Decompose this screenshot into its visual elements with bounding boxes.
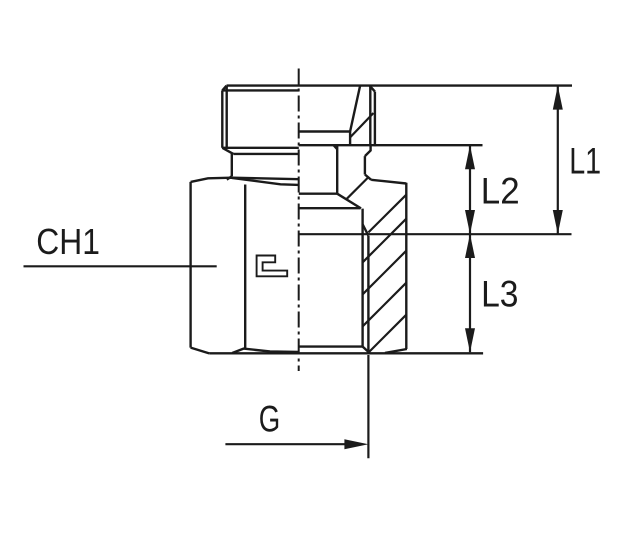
dimension line L3 [469,234,471,352]
internal cone top [350,86,360,132]
hatch hex band 4 [363,283,407,327]
neck right flare [365,175,371,180]
male thread chamfer base line [222,89,298,91]
internal bore shelf 1 [299,130,350,132]
center axis line [298,69,300,372]
logo mark squared G [257,256,288,277]
internal cone flare to female thread [337,194,361,209]
internal bore wall 2 [336,145,338,194]
male thread root right [369,86,371,146]
neck right step [365,145,371,156]
female thread root line [361,209,363,347]
male thread top chamfer left [222,86,226,91]
arrowhead L2 bottom [465,210,475,234]
hex top silhouette left [191,178,299,182]
svg-text:L1: L1 [569,140,601,181]
hex bottom chamfer left [191,348,210,354]
male thread top face [227,84,573,86]
hatch hex band 2 [363,219,407,263]
internal bore wall 1 [349,132,351,146]
male thread top chamfer right [370,86,375,92]
male thread root left [225,86,227,148]
hatch hex band 5 [368,315,406,353]
svg-text:G: G [259,399,281,440]
hex left outer edge [189,182,191,348]
svg-text:CH1: CH1 [36,221,100,262]
hatch hex band 1 [368,195,406,233]
hex bottom V left [232,349,299,353]
male thread crest right [374,92,376,147]
neck right wall [364,156,366,174]
svg-text:L2: L2 [481,171,520,212]
svg-text:L3: L3 [481,274,518,315]
arrowhead L1 top [553,86,563,110]
hatch thread band [350,113,373,137]
arrowhead L2 top [465,145,475,169]
arrowhead L3 top [465,234,475,258]
neck left wall [231,154,233,176]
hex right outer edge [405,183,407,349]
arrowhead L3 bottom [465,328,475,352]
female thread runout [363,224,369,235]
arrowhead G right [344,439,368,449]
hex edge line left [244,185,246,349]
shoulder line left lower [233,153,298,155]
shoulder chamfer left [222,148,233,154]
female thread root bottom chamfer [363,347,370,353]
hatch hex band 3 [363,251,407,295]
internal bore top chamfer [334,145,338,149]
dimension line L1 [557,86,559,234]
shoulder line right with L2 extension [299,144,483,146]
hex bottom chamfer right [385,349,407,353]
arrowhead L1 bottom [553,210,563,234]
male thread crest left [221,90,223,147]
female thread crest line [367,236,369,354]
dimension line L2 [469,145,471,234]
mid extension line at thread depth [299,233,572,235]
G arrow line [225,443,348,445]
internal thread start shelf [299,207,361,209]
hatch neck band [346,177,368,199]
hex top face right [371,180,406,184]
hex bottom flat [209,352,483,354]
G extension line below part [367,355,369,458]
internal bore shelf 2 [299,192,337,194]
female thread bottom relief line [299,345,363,347]
neck left flare [227,176,232,179]
CH1 leader line [24,265,217,267]
hex top cone base left [232,178,299,185]
shoulder line left upper [222,147,298,149]
